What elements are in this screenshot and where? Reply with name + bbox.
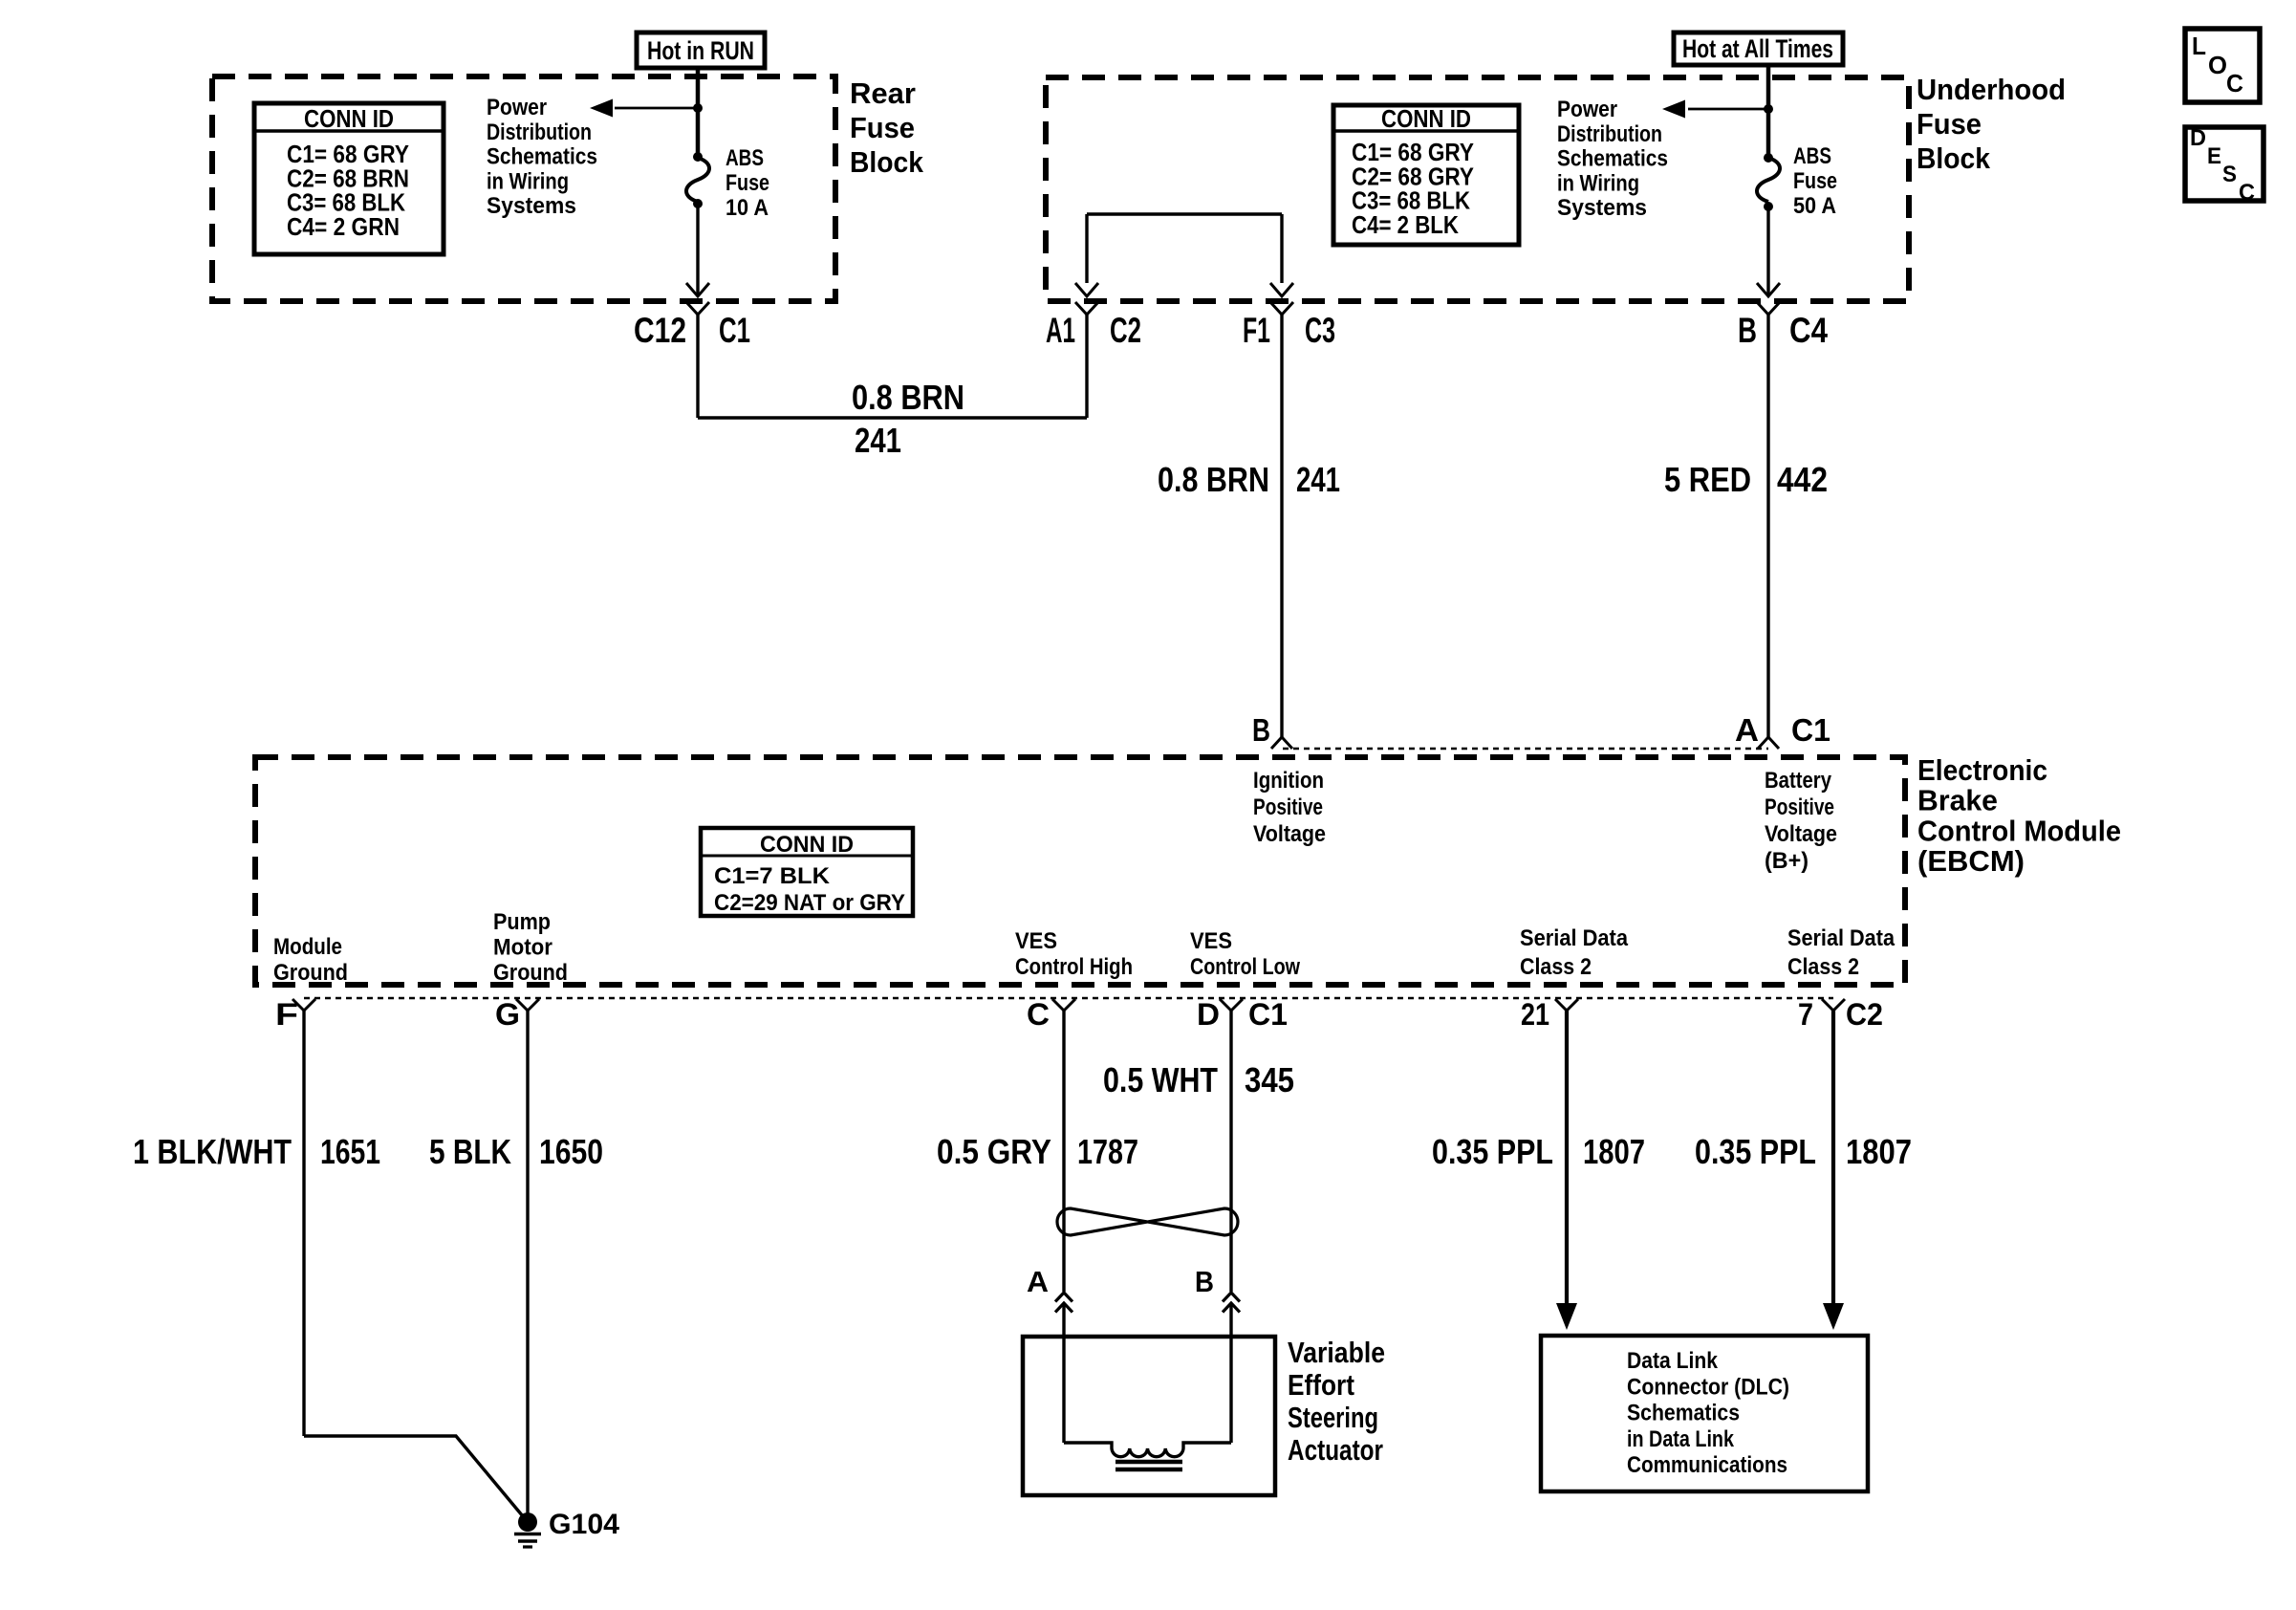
svg-text:Effort: Effort [1288, 1368, 1354, 1402]
svg-text:C1: C1 [1248, 997, 1288, 1032]
svg-text:Variable: Variable [1288, 1336, 1385, 1369]
svg-text:Underhood: Underhood [1917, 73, 2066, 106]
svg-text:Hot at All Times: Hot at All Times [1682, 34, 1833, 63]
svg-text:Fuse: Fuse [1793, 168, 1837, 194]
svg-text:B: B [1252, 712, 1270, 748]
svg-text:241: 241 [855, 421, 901, 460]
svg-text:Brake: Brake [1917, 784, 1998, 817]
svg-text:C4= 2 BLK: C4= 2 BLK [1352, 210, 1459, 239]
svg-text:Ground: Ground [273, 960, 348, 986]
svg-text:1807: 1807 [1846, 1132, 1912, 1171]
svg-text:0.35 PPL: 0.35 PPL [1695, 1132, 1816, 1171]
svg-text:Ignition: Ignition [1253, 768, 1324, 794]
svg-text:C2=29 NAT or GRY: C2=29 NAT or GRY [714, 890, 905, 916]
svg-text:Fuse: Fuse [850, 111, 915, 144]
svg-text:Voltage: Voltage [1765, 821, 1837, 847]
svg-text:Serial Data: Serial Data [1520, 925, 1629, 951]
svg-text:C: C [2239, 180, 2255, 206]
svg-text:Ground: Ground [493, 960, 568, 986]
svg-text:F1: F1 [1243, 311, 1270, 350]
svg-text:Module: Module [273, 934, 342, 960]
svg-text:F: F [275, 997, 298, 1032]
svg-text:Systems: Systems [487, 193, 576, 219]
svg-text:A: A [1735, 712, 1759, 748]
svg-text:0.35 PPL: 0.35 PPL [1432, 1132, 1553, 1171]
svg-text:Fuse: Fuse [726, 170, 769, 196]
svg-text:(B+): (B+) [1765, 848, 1809, 874]
svg-text:Pump: Pump [493, 909, 551, 935]
svg-text:Class 2: Class 2 [1520, 954, 1592, 980]
svg-text:Block: Block [1917, 141, 1991, 175]
svg-text:Systems: Systems [1557, 195, 1647, 221]
svg-text:Schematics: Schematics [1627, 1401, 1740, 1426]
svg-text:Power: Power [487, 95, 547, 120]
svg-text:Electronic: Electronic [1917, 753, 2047, 787]
svg-text:Control Low: Control Low [1190, 954, 1300, 980]
svg-text:C3: C3 [1305, 311, 1335, 350]
svg-text:C12: C12 [634, 311, 686, 350]
svg-text:in Wiring: in Wiring [487, 168, 569, 194]
svg-text:C1: C1 [719, 311, 750, 350]
svg-text:1787: 1787 [1077, 1132, 1138, 1171]
svg-text:C1: C1 [1791, 712, 1830, 748]
svg-text:1807: 1807 [1583, 1132, 1645, 1171]
svg-text:Actuator: Actuator [1288, 1433, 1383, 1467]
svg-text:G: G [495, 997, 520, 1032]
svg-text:1 BLK/WHT: 1 BLK/WHT [133, 1132, 292, 1171]
svg-text:Motor: Motor [493, 935, 552, 961]
svg-text:D: D [2190, 125, 2206, 151]
svg-text:C: C [1027, 997, 1050, 1032]
svg-text:C2: C2 [1846, 997, 1883, 1032]
svg-text:ABS: ABS [1793, 143, 1831, 169]
svg-text:5 RED: 5 RED [1664, 460, 1751, 499]
svg-text:in Data Link: in Data Link [1627, 1426, 1735, 1452]
svg-text:Distribution: Distribution [487, 120, 592, 145]
svg-text:10 A: 10 A [726, 195, 769, 221]
svg-text:Class 2: Class 2 [1787, 954, 1859, 980]
svg-text:A: A [1027, 1265, 1049, 1298]
svg-text:O: O [2208, 51, 2227, 79]
svg-text:Schematics: Schematics [1557, 146, 1668, 172]
svg-text:0.5 GRY: 0.5 GRY [937, 1132, 1051, 1171]
svg-text:Rear: Rear [850, 76, 916, 110]
svg-text:C: C [2226, 69, 2243, 98]
svg-text:Data Link: Data Link [1627, 1348, 1719, 1374]
svg-text:(EBCM): (EBCM) [1917, 844, 2025, 878]
svg-text:1650: 1650 [539, 1132, 603, 1171]
svg-text:Schematics: Schematics [487, 144, 597, 170]
svg-text:D: D [1197, 997, 1220, 1032]
svg-text:442: 442 [1777, 460, 1828, 499]
svg-text:50 A: 50 A [1793, 193, 1836, 219]
svg-text:C4= 2 GRN: C4= 2 GRN [287, 212, 400, 241]
svg-text:0.8 BRN: 0.8 BRN [1158, 460, 1269, 499]
svg-text:Hot in RUN: Hot in RUN [647, 36, 754, 65]
svg-text:1651: 1651 [320, 1132, 380, 1171]
svg-text:Voltage: Voltage [1253, 821, 1326, 847]
svg-text:5 BLK: 5 BLK [429, 1132, 511, 1171]
svg-text:0.8 BRN: 0.8 BRN [852, 378, 964, 417]
svg-text:Power: Power [1557, 97, 1617, 122]
svg-text:B: B [1738, 311, 1757, 350]
svg-text:Positive: Positive [1765, 794, 1834, 820]
svg-text:Serial Data: Serial Data [1787, 925, 1895, 951]
svg-text:Distribution: Distribution [1557, 121, 1662, 147]
svg-text:E: E [2207, 143, 2221, 169]
svg-text:Connector (DLC): Connector (DLC) [1627, 1374, 1789, 1400]
svg-text:VES: VES [1015, 928, 1057, 954]
svg-text:21: 21 [1521, 997, 1549, 1032]
svg-text:CONN ID: CONN ID [1381, 104, 1471, 133]
svg-text:C2: C2 [1110, 311, 1141, 350]
svg-text:0.5 WHT: 0.5 WHT [1103, 1060, 1218, 1099]
svg-text:in Wiring: in Wiring [1557, 170, 1639, 196]
svg-text:Steering: Steering [1288, 1401, 1378, 1434]
svg-text:ABS: ABS [726, 145, 764, 171]
svg-text:S: S [2222, 162, 2237, 187]
svg-text:C1=7 BLK: C1=7 BLK [714, 863, 831, 889]
svg-text:B: B [1195, 1265, 1214, 1298]
svg-text:Control High: Control High [1015, 954, 1133, 980]
svg-text:G104: G104 [549, 1509, 619, 1540]
svg-text:7: 7 [1798, 997, 1813, 1032]
svg-text:345: 345 [1245, 1060, 1294, 1099]
svg-text:C4: C4 [1789, 311, 1828, 350]
svg-text:CONN ID: CONN ID [760, 832, 854, 858]
svg-text:Block: Block [850, 145, 924, 179]
svg-text:Control Module: Control Module [1917, 814, 2121, 847]
svg-text:241: 241 [1296, 460, 1340, 499]
svg-text:Communications: Communications [1627, 1452, 1787, 1478]
svg-text:Fuse: Fuse [1917, 107, 1982, 141]
svg-text:A1: A1 [1046, 311, 1075, 350]
svg-text:CONN ID: CONN ID [304, 104, 394, 133]
svg-text:Battery: Battery [1765, 768, 1832, 794]
svg-text:L: L [2192, 32, 2206, 60]
svg-text:VES: VES [1190, 928, 1232, 954]
svg-text:Positive: Positive [1253, 794, 1323, 820]
